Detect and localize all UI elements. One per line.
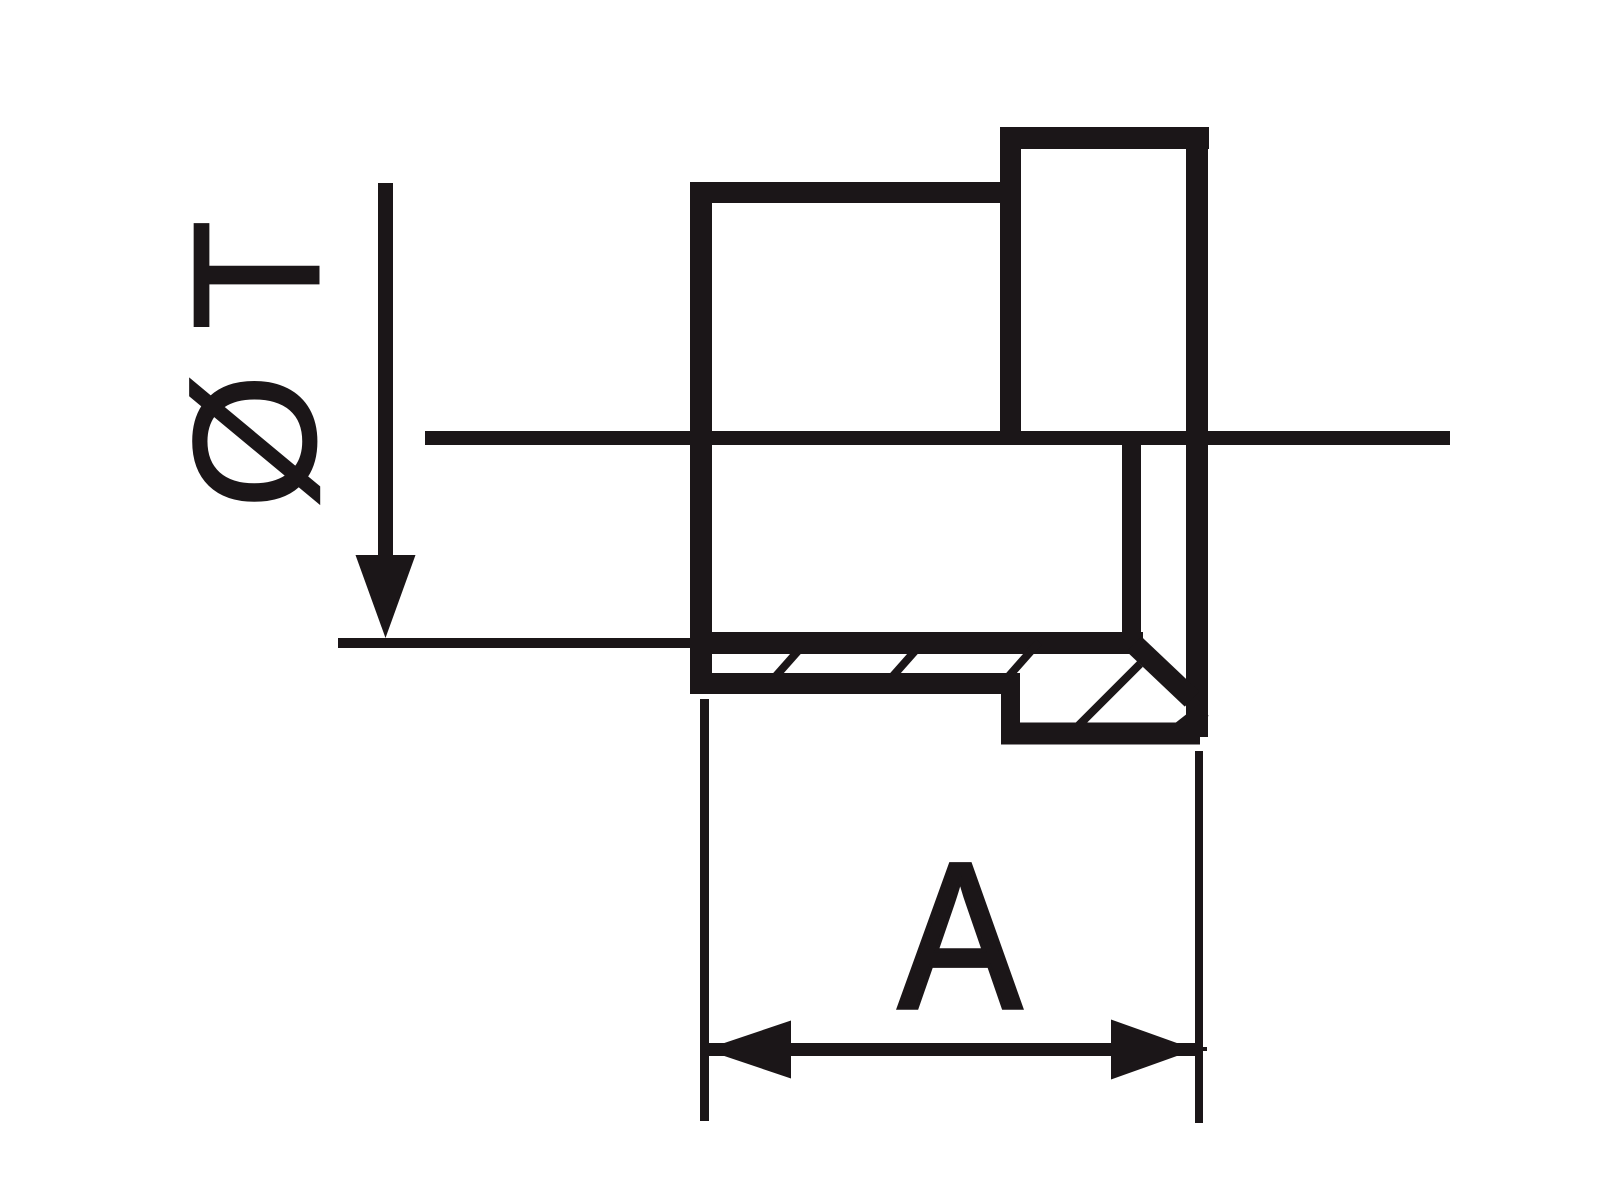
svg-text:A: A	[899, 819, 1022, 1052]
svg-text:T: T	[157, 220, 358, 330]
svg-text:Ø: Ø	[157, 374, 352, 509]
